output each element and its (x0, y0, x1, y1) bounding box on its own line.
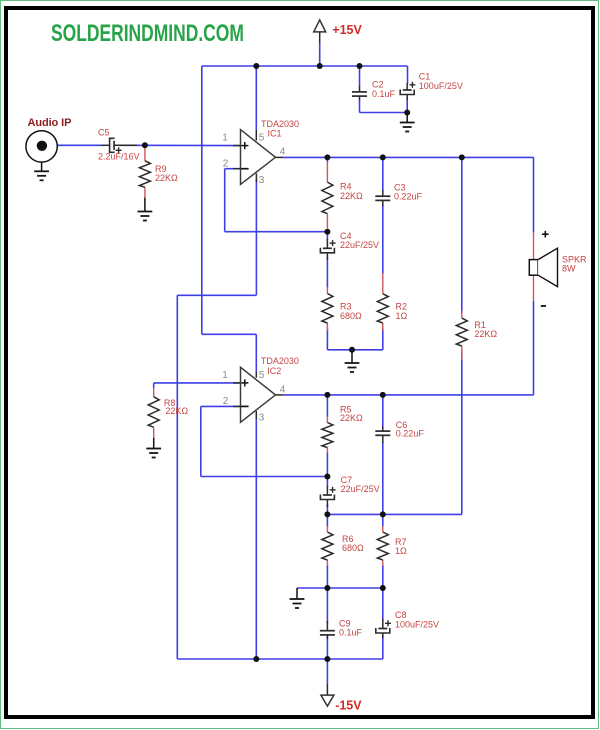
svg-text:2.2uF/16V: 2.2uF/16V (98, 151, 140, 161)
svg-text:4: 4 (280, 384, 286, 395)
svg-text:5: 5 (259, 370, 265, 381)
svg-text:IC2: IC2 (267, 366, 281, 376)
svg-text:680Ω: 680Ω (342, 543, 364, 553)
svg-text:TDA2030: TDA2030 (261, 119, 299, 129)
svg-text:680Ω: 680Ω (340, 311, 362, 321)
svg-text:22KΩ: 22KΩ (340, 191, 363, 201)
svg-text:4: 4 (280, 147, 286, 158)
svg-text:22KΩ: 22KΩ (165, 406, 188, 416)
svg-text:5: 5 (259, 132, 265, 143)
svg-text:+15V: +15V (332, 23, 362, 37)
svg-text:22KΩ: 22KΩ (340, 413, 363, 423)
svg-text:22uF/25V: 22uF/25V (341, 484, 380, 494)
svg-text:1Ω: 1Ω (395, 546, 407, 556)
svg-text:22uF/25V: 22uF/25V (340, 240, 379, 250)
svg-text:22KΩ: 22KΩ (155, 173, 178, 183)
svg-text:Audio IP: Audio IP (28, 117, 72, 129)
svg-text:IC1: IC1 (268, 129, 282, 139)
svg-text:2: 2 (223, 159, 229, 170)
svg-text:C8: C8 (395, 610, 407, 620)
svg-text:-15V: -15V (335, 698, 362, 712)
svg-text:3: 3 (259, 413, 265, 424)
svg-text:C5: C5 (98, 127, 110, 137)
svg-text:22KΩ: 22KΩ (474, 329, 497, 339)
svg-text:0.22uF: 0.22uF (394, 192, 423, 202)
svg-text:100uF/25V: 100uF/25V (419, 81, 463, 91)
svg-text:1Ω: 1Ω (396, 311, 408, 321)
svg-text:0.1uF: 0.1uF (339, 628, 363, 638)
svg-text:1: 1 (222, 370, 228, 381)
svg-text:0.1uF: 0.1uF (372, 89, 396, 99)
svg-text:8W: 8W (562, 264, 576, 274)
svg-text:3: 3 (259, 175, 265, 186)
svg-text:2: 2 (223, 396, 229, 407)
svg-text:100uF/25V: 100uF/25V (395, 620, 439, 630)
svg-text:1: 1 (222, 132, 228, 143)
svg-text:0.22uF: 0.22uF (396, 428, 425, 438)
svg-text:TDA2030: TDA2030 (261, 356, 299, 366)
